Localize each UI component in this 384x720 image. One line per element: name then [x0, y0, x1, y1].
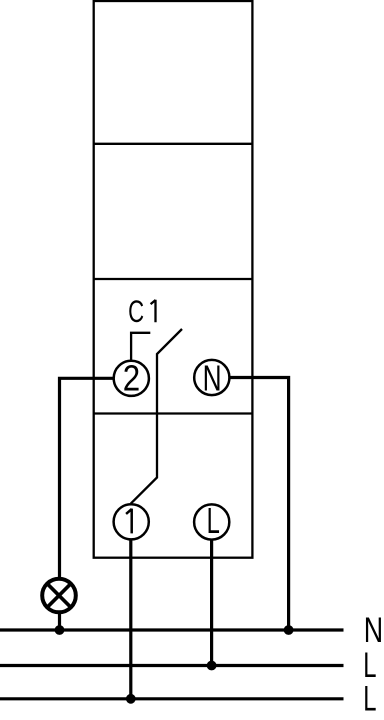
- junction dot lamp/N bus: [55, 625, 65, 635]
- section divider 2: [94, 278, 253, 280]
- svg-text:2: 2: [123, 359, 140, 400]
- terminal 2: [114, 359, 149, 400]
- label C1: [128, 293, 144, 329]
- svg-text:C: C: [128, 293, 144, 329]
- switch blade: [131, 329, 182, 504]
- wire: lamp to N bus: [58, 612, 61, 630]
- net label N: [364, 610, 383, 649]
- wire: terminal L down to first L bus: [210, 540, 213, 666]
- section divider 1: [94, 143, 253, 145]
- N bus line: [0, 628, 344, 631]
- junction dot wireL/L1 bus: [207, 661, 217, 671]
- svg-text:L: L: [363, 680, 376, 719]
- contact C1 fixed lead: [131, 333, 150, 361]
- terminal L: [194, 501, 229, 541]
- wire: terminal N right and down to N bus: [230, 378, 289, 631]
- device outline: [94, 1, 253, 558]
- terminal N: [194, 357, 229, 398]
- L bus line 2: [0, 697, 344, 700]
- svg-text:N: N: [364, 610, 383, 649]
- svg-text:L: L: [207, 501, 220, 541]
- svg-text:N: N: [203, 357, 222, 398]
- junction dot wire1/L2 bus: [126, 694, 136, 704]
- section divider 3: [94, 412, 253, 414]
- lamp E1: [42, 579, 76, 613]
- net label L2: [363, 680, 376, 719]
- wire: terminal 2 left to lamp drop: [60, 378, 114, 578]
- L bus line 1: [0, 664, 344, 667]
- terminal 1: [114, 504, 149, 539]
- junction dot right/N bus: [284, 625, 294, 635]
- wire: terminal 1 down to second L bus: [129, 540, 132, 699]
- net label L1: [363, 647, 376, 686]
